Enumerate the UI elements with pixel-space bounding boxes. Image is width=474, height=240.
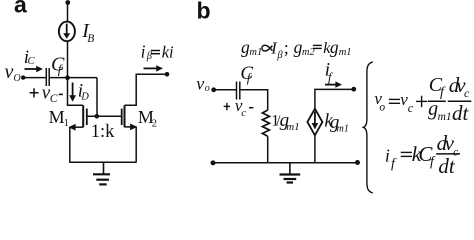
- svg-text:f: f: [328, 70, 333, 84]
- svg-text:v: v: [5, 61, 14, 83]
- label k gm1: [324, 111, 348, 135]
- svg-text:D: D: [80, 91, 89, 102]
- node: bottom-right terminal (part b): [355, 160, 360, 165]
- wire (diamond top to output): [315, 89, 354, 108]
- node: input terminal vo (part b): [211, 87, 216, 92]
- node: gate junction: [95, 114, 100, 119]
- wire (M2 source to rail): [135, 127, 137, 163]
- wire (cap to resistor top): [240, 90, 267, 110]
- wire (diode connection down to gates): [96, 78, 98, 117]
- equation 1: vo = vc + (Cf/gm1)(dvc/dt): [389, 96, 428, 107]
- equation 2: if = k Cf dvc/dt: [401, 152, 412, 156]
- svg-text:i: i: [385, 146, 390, 166]
- capacitor Cf (part a): [46, 68, 49, 86]
- node: output terminal top (part b): [351, 87, 356, 92]
- label if: [325, 60, 333, 85]
- wire (M1 drain): [68, 78, 83, 106]
- node: top supply terminal: [65, 0, 70, 5]
- svg-text:B: B: [87, 33, 94, 45]
- transistor M1: [69, 105, 87, 130]
- fraction bar dvc/dt (eq1): [448, 100, 472, 102]
- wire (bottom rail part a): [70, 161, 136, 163]
- svg-text:v: v: [196, 74, 204, 94]
- node: cap / M1 drain junction: [65, 75, 70, 80]
- curly brace: [363, 62, 372, 193]
- svg-text:m1: m1: [249, 47, 262, 58]
- wire (M2 drain up and out): [125, 74, 167, 105]
- svg-text:f: f: [391, 156, 397, 171]
- svg-text:i: i: [141, 42, 146, 62]
- wire (resistor to rail): [267, 136, 269, 162]
- symbol propto (drawn): [262, 45, 273, 51]
- svg-text:o: o: [379, 101, 385, 113]
- label i_beta = ki: [151, 51, 160, 54]
- wire: [50, 77, 97, 79]
- wire (bottom rail part b): [213, 162, 358, 164]
- svg-text:O: O: [14, 73, 21, 84]
- label IB: [81, 20, 94, 45]
- fraction bar Cf/gm1: [428, 100, 446, 102]
- label gm1 propto IB ; gm2 = k gm1: [241, 37, 352, 61]
- current arrow if: [325, 81, 342, 87]
- svg-text:ki: ki: [162, 42, 174, 61]
- wire: [67, 3, 69, 22]
- label Cf (part a): [51, 54, 65, 77]
- svg-text:o: o: [205, 83, 210, 94]
- wire (M1 source to rail): [69, 127, 71, 163]
- svg-text:dt: dt: [438, 154, 456, 178]
- current arrow i_beta: [144, 65, 164, 71]
- wire: [67, 41, 69, 78]
- svg-text:m1: m1: [337, 123, 349, 134]
- svg-text:β: β: [276, 50, 283, 61]
- label +vC-: [0, 0, 1, 1]
- label vO: [5, 61, 21, 84]
- svg-text:m1: m1: [438, 111, 452, 123]
- transistor M2: [122, 105, 138, 130]
- svg-text:C: C: [28, 56, 36, 67]
- svg-text:1: 1: [64, 118, 69, 129]
- svg-text:dt: dt: [452, 101, 470, 125]
- label 1/gm1: [271, 110, 299, 133]
- svg-text:c: c: [464, 86, 470, 100]
- label vo (part b): [196, 74, 210, 94]
- fraction bar dvc/dt (eq2): [436, 153, 460, 155]
- current arrow iD: [69, 83, 76, 102]
- label iC: [24, 47, 36, 68]
- svg-text:β: β: [146, 51, 153, 62]
- label M2: [138, 107, 157, 129]
- svg-text:m1: m1: [286, 121, 299, 133]
- wire (diamond bottom to rail): [314, 135, 316, 162]
- svg-text:M: M: [49, 107, 65, 127]
- wire: [23, 77, 46, 79]
- svg-text:m1: m1: [339, 47, 352, 58]
- node: input terminal vO: [21, 75, 25, 79]
- node: bottom-left terminal (part b): [211, 160, 216, 165]
- label M1: [49, 107, 69, 129]
- wire: [214, 89, 236, 91]
- dependent source k gm1 (diamond): [307, 109, 322, 136]
- capacitor Cf (part b): [237, 82, 240, 100]
- node: output terminal: [165, 72, 170, 77]
- svg-text:c: c: [408, 101, 414, 115]
- svg-text:f: f: [430, 154, 436, 169]
- ground (part b): [280, 163, 301, 183]
- label iD: [78, 80, 90, 102]
- svg-text:a: a: [14, 0, 27, 17]
- symbol equals (header, drawn): [313, 44, 322, 46]
- current source IB: [59, 22, 75, 42]
- svg-text:1:k: 1:k: [91, 122, 115, 142]
- svg-text:c: c: [241, 107, 246, 119]
- svg-text:b: b: [197, 0, 211, 23]
- svg-text:g: g: [330, 37, 339, 57]
- wire (common gate line): [87, 115, 121, 117]
- svg-text:2: 2: [152, 118, 157, 129]
- current arrow iC: [25, 66, 43, 72]
- svg-text:C: C: [50, 93, 58, 105]
- ground (part a): [93, 162, 110, 184]
- svg-text:f: f: [440, 85, 446, 100]
- svg-text:;: ;: [284, 37, 289, 57]
- resistor 1/gm1: [262, 110, 269, 136]
- label Cf (part b): [240, 63, 253, 85]
- label +vc- (part b): [0, 0, 1, 1]
